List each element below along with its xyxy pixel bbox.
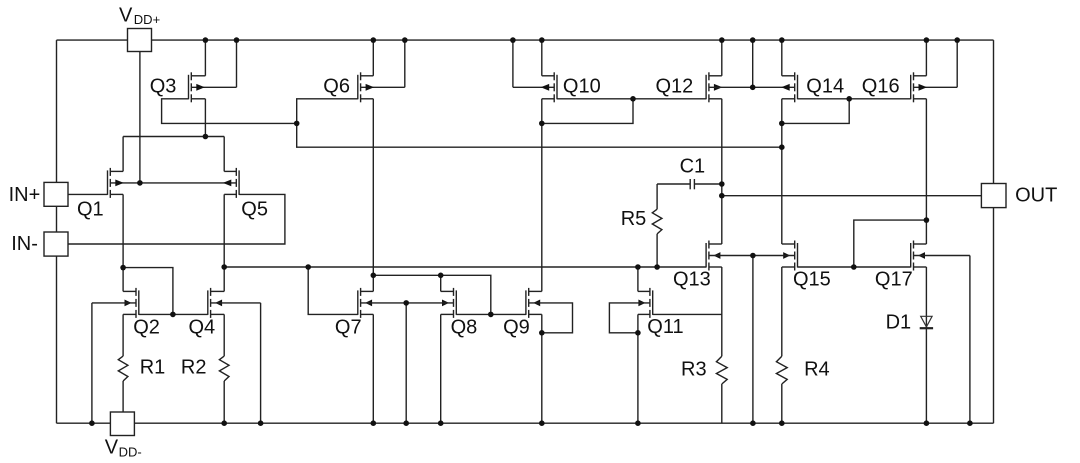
wire Q11 source down to rail [637,314,639,423]
transistor Q10 drain lead [542,75,554,77]
wire output net to OUT [722,195,982,197]
transistor Q11 bulk arrow [638,300,645,307]
transistor Q6 channel dashes [360,72,362,80]
svg-text:Q4: Q4 [189,317,216,339]
transistor Q8 bulk arrow [442,300,449,307]
port VDD+ terminal box [128,29,152,52]
wire Q13 source down to R3 [721,267,723,356]
transistor Q17 source lead [914,266,927,268]
transistor Q15 channel dashes [794,241,796,249]
resistor R1 [118,356,128,381]
svg-text:Q16: Q16 [862,75,900,97]
transistor Q16 gate bar [910,75,912,100]
transistor Q11 gate bar [652,290,654,315]
wire Q2 bulk down to rail [91,303,93,423]
svg-text:Q11: Q11 [647,316,683,338]
junction Q7 Q8 bulk node [403,300,409,306]
junction Q8 drain node [438,273,444,279]
wire Q7 source down to rail [372,314,374,423]
transistor Q14 drain lead [782,75,795,77]
transistor Q6 bulk lead [361,86,405,88]
svg-text:Q8: Q8 [451,317,478,339]
transistor Q13 channel dashes [708,241,710,249]
wire VDD- rail right segment [134,422,993,424]
node Q1 Q5 bulk line [110,182,236,184]
wire R4 bottom to rail [781,384,783,423]
junction top rail x=781.8 [779,37,785,43]
node Q13 Q15 bulk line [709,255,795,257]
junction Q9 bulk-source node [539,330,545,336]
wire Q2 bulk lead [92,302,136,304]
wire Q17 source down through D1 to rail [925,267,927,423]
transistor Q3 bulk lead [191,86,236,88]
wire right edge upper segment [993,40,995,183]
transistor Q12 drain lead [709,75,722,77]
wire gate bus drop and run to Q14 drain [297,123,782,147]
transistor Q4 drain lead [211,290,225,292]
wire right edge lower segment [993,208,995,424]
transistor Q7 channel dashes [360,288,362,296]
wire Q3 bulk to rail [236,40,238,87]
wire Q1 drain link to mirror gates [123,268,173,315]
wire Q17 drain link to Q16 source line [854,220,927,267]
wire Q13 Q15 bulk down to rail [752,256,754,424]
node Q7 Q8 bulk line [361,302,454,304]
junction Q7 drain node [371,273,377,279]
junction bottom rail x=637.9 [635,420,641,426]
transistor Q15 bulk arrow [783,252,790,259]
resistor R4 [776,356,787,384]
junction bottom rail x=373.3 [371,420,377,426]
wire Q9 bulk wrap to source [529,303,573,333]
wire R2 bottom to rail [223,381,225,423]
junction gate bus node [294,121,300,127]
junction bottom rail x=224.2 [221,420,227,426]
transistor Q8 drain lead [441,290,454,292]
svg-text:DD+: DD+ [134,12,160,27]
svg-text:Q13: Q13 [673,268,711,290]
transistor Q1 source lead [110,193,123,195]
wire Q4 bulk lead [211,302,261,304]
transistor Q13 gate bar [705,243,707,268]
transistor Q15 drain lead [782,243,795,245]
transistor Q16 bulk lead [914,86,958,88]
svg-text:IN+: IN+ [9,184,41,206]
transistor Q2 channel dashes [135,288,137,296]
wire Q11 bulk wrap to source [609,303,650,333]
transistor Q8 channel dashes [453,288,455,296]
transistor Q7 bulk arrow [365,300,372,307]
wire Q12 source to rail [721,40,723,76]
svg-text:Q10: Q10 [563,75,601,97]
junction top rail x=404.8 [402,37,408,43]
transistor Q16 bulk arrow [919,84,928,91]
junction output node [719,193,725,199]
wire C1 left plate wire [657,183,690,185]
transistor Q2 drain lead [123,290,136,292]
wire Q2 source down to R1 [122,314,124,356]
transistor Q1 bulk arrow [115,180,124,187]
transistor Q10 channel dashes [553,72,555,80]
wire Q5 source up [223,137,225,172]
transistor Q6 drain lead [361,75,374,77]
svg-text:R4: R4 [804,359,830,381]
svg-text:V: V [105,436,119,458]
wire IN- to Q5 gate [68,194,285,244]
diode D1 [921,316,932,327]
wire left edge lower segment [56,256,58,423]
transistor Q5 bulk arrow [223,180,232,187]
transistor Q6 source lead [361,98,374,100]
svg-text:R5: R5 [621,208,647,230]
wire R5 top wire [656,184,658,209]
wire Q17 bulk lead [914,255,970,257]
svg-text:R1: R1 [140,357,166,379]
transistor Q3 bulk arrow [196,84,205,91]
wire Q3 drain down to tail [204,99,206,137]
junction top rail x=205.4 [203,37,209,43]
junction Q17 drain node [924,217,930,223]
junction Q14 Q16 gate node [846,96,852,102]
junction top rail x=541.8 [539,37,545,43]
svg-text:R3: R3 [681,359,707,381]
wire Q8 drain up [440,275,442,291]
wire Q14 Q16 gate line [798,98,911,100]
wire Q6 gate to node [297,99,358,124]
junction Q11 bulk-source node [635,330,641,336]
transistor Q5 drain lead [224,170,236,172]
transistor Q14 gate bar [797,75,799,100]
transistor Q1 drain lead [110,170,123,172]
transistor Q14 source lead [782,98,795,100]
transistor Q10 source lead [542,98,554,100]
junction bottom rail x=969.9 [967,420,973,426]
transistor Q13 source lead [709,266,722,268]
junction Q1 drain link [120,265,126,271]
wire Q16 drain down to Q17 [925,99,927,244]
transistor Q12 bulk arrow [714,84,723,91]
wire Q14 drain down to Q15 [781,99,783,244]
wire main mirror bus [224,266,706,268]
wire Q11 gate to Q13 source [653,313,722,315]
wire VDD+ rail left segment [57,39,128,41]
port IN+ terminal box [44,182,68,206]
transistor Q4 bulk arrow [215,300,222,307]
junction top rail x=957.2 [954,37,960,43]
wire Q15 Q17 gate line [797,266,910,268]
wire Q8 source down to rail [440,314,442,423]
wire Q14 Q16 gate tap to drain [782,99,849,124]
wire left edge mid segment [56,206,58,232]
transistor Q9 bulk arrow [533,300,540,307]
wire Q3 gate jog [162,99,297,124]
transistor Q4 gate bar [207,290,209,315]
wire R5 bottom wire [656,234,658,267]
junction Q10 Q12 gate node [630,96,636,102]
transistor Q4 channel dashes [210,288,212,296]
svg-text:DD-: DD- [119,444,142,459]
port IN- terminal box [44,232,68,256]
svg-text:Q1: Q1 [77,199,104,221]
node Q12 Q14 bulk line [709,86,795,88]
transistor Q11 channel dashes [649,288,651,296]
svg-text:C1: C1 [680,156,706,178]
wire Q2 Q4 gate line [139,313,208,315]
transistor Q17 drain lead [914,243,927,245]
wire R3 bottom to rail [721,384,723,423]
transistor Q3 channel dashes [190,72,192,80]
capacitor C1 [689,179,691,189]
junction C1 on Q12 drain [719,181,725,187]
svg-text:Q12: Q12 [656,75,694,97]
svg-text:R2: R2 [181,357,207,379]
wire Q10 Q12 gate line [557,98,706,100]
transistor Q4 source lead [211,313,225,315]
wire C1 right plate wire [694,183,721,185]
port VDD- terminal box [110,412,134,436]
wire Q6 source to rail [372,40,374,76]
junction Q2 Q4 gate node [170,312,176,318]
wire Q12 drain down to Q13 [721,99,723,244]
transistor Q10 bulk arrow [541,84,550,91]
svg-text:Q17: Q17 [875,268,913,290]
wire Q5 drain down [223,194,225,291]
transistor Q13 drain lead [709,243,722,245]
transistor Q14 channel dashes [794,72,796,80]
junction bottom rail x=406.2 [403,420,409,426]
transistor Q2 bulk arrow [125,300,132,307]
wire Q7 gate to bus [308,267,358,314]
transistor Q7 drain lead [361,290,374,292]
svg-text:Q14: Q14 [806,75,844,97]
transistor Q5 gate bar [238,170,240,195]
junction Q3 drain on tail link [203,134,209,140]
transistor Q9 gate bar [525,290,527,315]
wire Q11 drain up to bus [637,267,639,291]
wire Q8 drain diode link [373,275,491,314]
junction top rail x=752.7 [750,37,756,43]
transistor Q9 drain lead [529,290,542,292]
wire Q4 source down to R2 [223,314,225,356]
wire Q16 bulk to rail [956,40,958,87]
transistor Q15 source lead [782,266,795,268]
transistor Q6 bulk arrow [366,84,375,91]
junction Q10 diode node [539,121,545,127]
junction bottom rail x=926.4 [924,420,930,426]
wire Q10 bulk to rail [512,40,514,87]
junction Q15 Q17 gate node [851,264,857,270]
wire Q4 bulk down to rail [260,303,262,423]
wire Q7 Q8 bulk down to rail [405,303,407,423]
transistor Q17 channel dashes [913,241,915,249]
svg-text:Q9: Q9 [503,317,530,339]
transistor Q12 gate bar [705,75,707,100]
wire VDD+ drop to input pair bulks [139,52,141,183]
transistor Q8 gate bar [455,290,457,315]
resistor R2 [219,356,229,381]
transistor Q8 source lead [441,313,454,315]
wire tail current link Q1-Q5 sources [123,136,224,138]
wire Q10 source to rail [541,40,543,76]
wire VDD- rail left segment [57,422,111,424]
junction top rail x=512.9 [510,37,516,43]
resistor R3 [716,356,727,384]
svg-text:OUT: OUT [1015,185,1057,207]
junction Q11 drain tap [635,264,641,270]
transistor Q16 channel dashes [913,72,915,80]
resistor R5 [652,209,662,234]
transistor Q7 source lead [361,313,374,315]
wire VDD+ rail right segment [152,39,994,41]
svg-text:Q15: Q15 [793,268,831,290]
svg-text:IN-: IN- [11,233,38,255]
transistor Q14 bulk arrow [781,84,790,91]
transistor Q10 bulk lead [513,86,554,88]
svg-text:Q5: Q5 [241,199,268,221]
transistor Q17 bulk arrow [918,252,925,259]
transistor Q5 channel dashes [235,168,237,176]
wire Q9 source down to rail [541,314,543,423]
junction bottom rail x=260.6 [258,420,264,426]
transistor Q9 source lead [529,313,542,315]
transistor Q9 channel dashes [528,288,530,296]
wire Q17 bulk down to rail [969,256,971,424]
wire Q8 Q9 gate line [456,313,526,315]
wire IN+ to Q1 gate [68,193,108,195]
wire Q10 diode link [542,99,633,124]
port OUT terminal box [981,184,1006,208]
wire R1 bottom to VDD- box [122,381,124,412]
junction Q8 Q9 gate node [488,312,494,318]
svg-text:V: V [119,4,133,26]
junction R5 on bus [654,264,660,270]
transistor Q11 drain lead [638,290,650,292]
transistor Q16 source lead [914,98,927,100]
svg-text:D1: D1 [886,312,912,334]
transistor Q13 bulk arrow [713,252,720,259]
transistor Q12 channel dashes [708,72,710,80]
svg-text:Q2: Q2 [133,317,160,339]
wire Q10 drain down to Q9 drain [541,99,543,292]
transistor Q17 gate bar [910,243,912,268]
wire left edge upper segment [56,40,58,182]
wire Q3 source to rail [204,40,206,76]
transistor Q5 source lead [224,193,236,195]
transistor Q7 gate bar [357,290,359,315]
svg-text:Q7: Q7 [335,317,362,339]
transistor Q3 drain lead [191,75,205,77]
junction bottom rail x=541.8 [539,420,545,426]
transistor Q11 source lead [638,313,650,315]
junction Q7 gate tap [305,264,311,270]
transistor Q12 source lead [709,98,722,100]
wire Q1 drain down [122,194,124,291]
transistor Q15 gate bar [797,243,799,268]
wire Q12 Q14 bulk to rail [752,40,754,87]
transistor Q1 gate bar [107,170,109,195]
junction gate bus on Q14 drain [779,144,785,150]
junction top rail x=721.8 [719,37,725,43]
junction bottom rail x=91.9 [89,420,95,426]
transistor Q2 gate bar [138,290,140,315]
wire Q15 source down to R4 [781,267,783,356]
junction top rail x=926.4 [924,37,930,43]
junction Q12 Q14 bulk node [750,85,756,91]
junction bottom rail x=440.7 [438,420,444,426]
transistor Q3 gate bar [188,75,190,100]
transistor Q2 source lead [123,313,136,315]
wire Q14 source to rail [781,40,783,76]
junction bottom rail x=752.9 [750,420,756,426]
transistor Q16 drain lead [914,75,927,77]
transistor Q6 gate bar [357,75,359,100]
junction Q14 gate-drain node [779,121,785,127]
svg-text:Q6: Q6 [323,75,350,97]
wire Q6 bulk to rail [404,40,406,87]
wire Q16 source to rail [925,40,927,76]
junction Q13 Q15 bulk node [750,253,756,259]
junction VDD+ drop on bulk line [137,180,143,186]
transistor Q10 gate bar [556,75,558,100]
junction bottom rail x=781.8 [779,420,785,426]
transistor Q1 channel dashes [109,168,111,176]
svg-text:Q3: Q3 [150,75,177,97]
transistor Q3 source lead [191,98,205,100]
junction top rail x=373.3 [371,37,377,43]
wire Q6 drain down to Q7 drain [372,99,374,292]
junction top rail x=236.5 [234,37,240,43]
wire Q1 source up [122,137,124,172]
junction bus start at Q5 drain [221,264,227,270]
